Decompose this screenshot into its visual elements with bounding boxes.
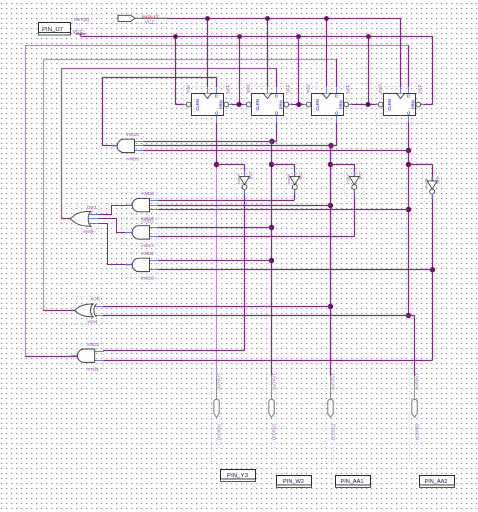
wire DFF3 D feedback left vertical [43, 59, 45, 310]
wire NOT4 output to AND2 inst11 bottom input [103, 360, 433, 362]
gate AND3 inst12 [125, 198, 158, 211]
svg-text:CLRN: CLRN [315, 99, 320, 111]
wire into DFF3 D [336, 59, 338, 87]
wire DFF2 D feedback run [61, 68, 277, 70]
wire AND2 inst10 top input run to Q2 [158, 260, 272, 262]
pin location box PIN_U7 [39, 23, 71, 36]
svg-text:D: D [407, 94, 410, 99]
svg-text:D: D [275, 94, 278, 99]
wire AND3 inst12 bottom input run to Q4 [158, 209, 409, 211]
output pin LEDR[2] [269, 376, 274, 418]
svg-text:AND2: AND2 [87, 342, 100, 347]
junction clock net at DFF1 [205, 16, 210, 21]
svg-text:NOT: NOT [249, 171, 253, 180]
wire into DFF2 D [276, 68, 278, 87]
junction clock net at DFF3 [324, 16, 329, 21]
wire AND3 inst15 middle input run to Q3 [143, 145, 330, 147]
wire DFF2 D feedback left vertical [61, 68, 63, 219]
wire DFF1 PRN to DFF2 CLRN [231, 104, 244, 106]
selection box AND2 inst13 [122, 220, 158, 245]
gate XOR inst4 [75, 304, 103, 317]
pin location box PIN_W2 [277, 476, 312, 488]
wire VCC net horizontal run [80, 36, 432, 38]
selection box AND3 inst12 [122, 192, 158, 217]
svg-text:CLRN: CLRN [387, 99, 392, 111]
svg-text:CLRN: CLRN [255, 99, 260, 111]
svg-text:PIN_U7: PIN_U7 [42, 27, 63, 33]
svg-text:DFF: DFF [345, 84, 350, 93]
wire Q3 down to LEDR1 pin [330, 146, 332, 376]
pin location box PIN_AA1 [336, 476, 371, 488]
wire NOT2 input corner [294, 164, 296, 176]
wire DFF3 PRN to DFF4 CLRN [351, 104, 376, 106]
wire XOR top input run to Q3 [103, 306, 331, 308]
svg-text:OUTPUT: OUTPUT [330, 373, 335, 390]
svg-text:PRN: PRN [411, 100, 416, 109]
inverter inst9 NOT1 [240, 171, 250, 195]
junction preset chain 1 [237, 102, 242, 107]
wire NOT4 input corner [432, 164, 434, 181]
junction Q2 at AND3 input [269, 139, 274, 144]
svg-text:NOT: NOT [436, 175, 440, 184]
selection box NOT1 [235, 168, 254, 196]
junction Q4 at AND3 bottom input [406, 148, 411, 153]
wire Q2 jog [272, 141, 277, 143]
wire AND2 inst13 output to OR3 input2 [98, 219, 132, 233]
wire DFF3 D feedback run [43, 59, 336, 61]
selection box NOT3 [345, 168, 364, 196]
wire NOT4 output down [432, 195, 434, 360]
selection box pin LEDR[0] [410, 369, 418, 462]
svg-text:inst1: inst1 [245, 84, 250, 94]
wire DFF4 D feedback left vertical [25, 45, 27, 356]
flip-flop inst DFF1 [184, 87, 231, 123]
svg-text:VCC: VCC [73, 29, 84, 34]
input pin KEY[0] [74, 14, 167, 24]
junction VCC net 2 [237, 34, 242, 39]
wire AND3 inst15 top input run to Q2 [143, 141, 271, 143]
wire into DFF1 D [216, 77, 218, 86]
junction NOT4 output to AND2 inst10 input [430, 267, 435, 272]
svg-text:PIN_Y3: PIN_Y3 [227, 473, 248, 479]
svg-text:D: D [215, 94, 218, 99]
junction Q3 to NOT3 tap [328, 162, 333, 167]
selection box pin LEDR[1] [326, 369, 334, 462]
wire AND3 inst12 output to OR3 input1 [98, 206, 132, 215]
wire clock drop to DFF4 [400, 18, 402, 86]
wire VCC drop 4 [368, 36, 370, 105]
output pin LEDR[0] [412, 376, 417, 418]
selection box AND3 inst15 [107, 133, 143, 158]
wire Q2 tap to NOT2 input [272, 164, 295, 166]
wire Q1 tap to NOT1 input [217, 164, 245, 166]
wire Q4 jog right [409, 315, 415, 317]
svg-text:inst7: inst7 [347, 174, 351, 184]
selection box NOT4 [423, 173, 442, 201]
svg-text:inst13: inst13 [141, 243, 154, 248]
wire VCC to DFF1 CLRN [176, 104, 184, 106]
wire NOT1 input corner [244, 164, 246, 176]
svg-text:PRN: PRN [339, 100, 344, 109]
gate AND2 inst11 [70, 349, 103, 362]
svg-text:LEDR[3]: LEDR[3] [216, 424, 221, 440]
svg-text:AND2: AND2 [141, 219, 154, 224]
selection box DFF4 [376, 86, 422, 123]
junction Q3 to AND3 inst12 input [328, 203, 333, 208]
svg-text:OUTPUT: OUTPUT [271, 373, 276, 390]
junction preset chain 2 [296, 102, 301, 107]
svg-text:PIN_AA1: PIN_AA1 [341, 479, 364, 485]
svg-text:OR3: OR3 [87, 205, 97, 210]
junction Q3 to XOR input [328, 304, 333, 309]
junction Q2 to AND2 inst13 input [269, 225, 274, 230]
svg-text:PRN: PRN [279, 100, 284, 109]
junction Q4 to XOR bottom input [406, 313, 411, 318]
junction Q4 to AND3 inst12 bottom input [406, 207, 411, 212]
svg-text:inst10: inst10 [141, 276, 154, 281]
junction Q3 at AND3 input [328, 143, 333, 148]
wire DFF3 Q down [336, 122, 338, 146]
svg-text:XOR: XOR [90, 297, 100, 302]
wire AND2 inst11 output to DFF4 D net [25, 356, 78, 358]
svg-text:inst3: inst3 [377, 84, 382, 94]
selection box NOT2 [285, 168, 304, 196]
wire VCC drop 1 [175, 36, 177, 105]
svg-text:inst4: inst4 [88, 319, 99, 324]
svg-text:PIN_W2: PIN_W2 [283, 479, 304, 485]
svg-text:inst8: inst8 [287, 174, 291, 184]
wire DFF4 D feedback top run [25, 45, 409, 47]
wire VCC drop 3 [298, 36, 300, 105]
wire AND2 inst13 top input run to Q2 [158, 227, 272, 229]
svg-text:OUTPUT: OUTPUT [216, 373, 221, 390]
svg-text:PRN: PRN [219, 100, 224, 109]
wire AND3 inst15 bottom input run to Q4 [143, 150, 408, 152]
svg-text:DFF: DFF [417, 84, 422, 93]
wire into DFF4 D [408, 45, 410, 86]
svg-text:inst2: inst2 [305, 84, 310, 94]
wire Q3 jog [331, 145, 337, 147]
svg-text:AND2: AND2 [141, 251, 154, 256]
svg-text:AND3: AND3 [126, 157, 139, 162]
wire clock drop to DFF1 [207, 18, 209, 86]
pin location box PIN_AA2 [420, 476, 455, 488]
wire DFF1 D feedback left vertical [102, 77, 104, 146]
flip-flop inst1 DFF2 [244, 87, 291, 123]
wire Q3 tap to NOT3 input [331, 164, 355, 166]
flip-flop inst3 DFF4 [376, 87, 423, 123]
junction preset chain 3 [366, 102, 371, 107]
wire OR3 output to DFF2 D net [61, 218, 71, 220]
svg-text:LEDR[0]: LEDR[0] [414, 424, 419, 440]
selection box XOR [64, 296, 103, 324]
wire NOT3 output to AND2 inst13 bottom input [354, 191, 356, 237]
svg-text:PIN_AA2: PIN_AA2 [425, 479, 448, 485]
pin location box PIN_Y3 [221, 470, 256, 482]
svg-text:LEDR[1]: LEDR[1] [330, 424, 335, 440]
wire AND3 inst15 output to DFF1 D net [103, 145, 118, 147]
svg-text:inst15: inst15 [126, 132, 139, 137]
gate OR3 inst5 [70, 211, 98, 226]
wire AND2 inst10 bottom input run [158, 269, 433, 271]
junction Q1 to NOT1 tap [214, 162, 219, 167]
selection box DFF3 [304, 86, 350, 123]
wire DFF2 PRN to DFF3 CLRN [291, 104, 304, 106]
junction VCC net 3 [296, 34, 301, 39]
svg-text:KEY[0]: KEY[0] [74, 17, 89, 22]
wire clock net KEY[0] horizontal run [167, 18, 401, 20]
junction clock net at DFF2 [265, 16, 270, 21]
wire AND2 inst10 output to OR3 input3 [98, 224, 132, 265]
wire DFF4 Q down [408, 122, 410, 315]
wire XOR output to DFF3 D net [43, 310, 74, 312]
junction VCC net 1 [173, 34, 178, 39]
junction Q4 to NOT4 tap [406, 162, 411, 167]
svg-text:inst9: inst9 [237, 174, 241, 184]
svg-text:NOT: NOT [299, 171, 303, 180]
wire Q2 down to LEDR2 pin [271, 141, 273, 375]
svg-text:DFF: DFF [225, 84, 230, 93]
wire NOT2 output to AND3 inst12 top input [294, 191, 296, 201]
output pin LEDR[1] [328, 376, 333, 418]
svg-text:DFF: DFF [285, 84, 290, 93]
wire DFF2 Q down [276, 122, 278, 141]
svg-text:D: D [335, 94, 338, 99]
inverter inst6 NOT4 [427, 176, 437, 200]
wire XOR bottom input run to Q4 [103, 315, 409, 317]
svg-text:AND3: AND3 [141, 191, 154, 196]
selection box OR3 [62, 206, 98, 232]
wire Q4 tap to NOT4 input [409, 164, 433, 166]
flip-flop inst2 DFF3 [304, 87, 351, 123]
wire VCC right corner down to DFF4 PRN [432, 36, 434, 105]
svg-text:inst6: inst6 [425, 179, 429, 189]
gate AND2 inst10 [125, 258, 158, 271]
inverter inst7 NOT3 [349, 171, 359, 195]
wire DFF1 Q down to LEDR3 pin [216, 122, 218, 164]
wire DFF1 D feedback run [102, 77, 216, 79]
inverter inst8 NOT2 [290, 171, 300, 195]
output pin LEDR[3] [214, 376, 219, 418]
selection box AND2 inst11 [67, 343, 103, 368]
wire AND3 inst12 middle input run to Q3 [158, 205, 331, 207]
svg-text:inst: inst [185, 84, 190, 93]
junction Q2 to AND2 inst10 input [269, 258, 274, 263]
selection box DFF2 [244, 86, 290, 123]
svg-text:OUTPUT: OUTPUT [414, 373, 419, 390]
selection box AND2 inst10 [122, 252, 158, 277]
gate AND3 inst15 [110, 139, 143, 152]
svg-text:LEDR[2]: LEDR[2] [271, 424, 276, 440]
junction VCC net 4 [366, 34, 371, 39]
selection box pin LEDR[3] [212, 369, 220, 462]
svg-text:inst11: inst11 [87, 366, 100, 371]
selection box DFF1 [184, 86, 230, 123]
wire DFF4 PRN to VCC corner [423, 104, 432, 106]
selection box around KEY[0] input [72, 15, 167, 24]
wire clock drop to DFF3 [326, 18, 328, 86]
junction Q2 to NOT2 tap [269, 162, 274, 167]
power symbol VCC [73, 29, 86, 36]
wire NOT3 input corner [354, 164, 356, 176]
wire VCC drop 2 [239, 36, 241, 105]
wire NOT1 output down to AND2 inst11 input [244, 191, 246, 351]
selection box pin LEDR[2] [267, 369, 275, 462]
wire clock drop to DFF2 [267, 18, 269, 86]
wire Q4 down to LEDR0 pin [414, 316, 416, 376]
svg-text:NOT: NOT [359, 171, 363, 180]
gate AND2 inst13 [125, 226, 158, 239]
svg-text:CLRN: CLRN [195, 99, 200, 111]
